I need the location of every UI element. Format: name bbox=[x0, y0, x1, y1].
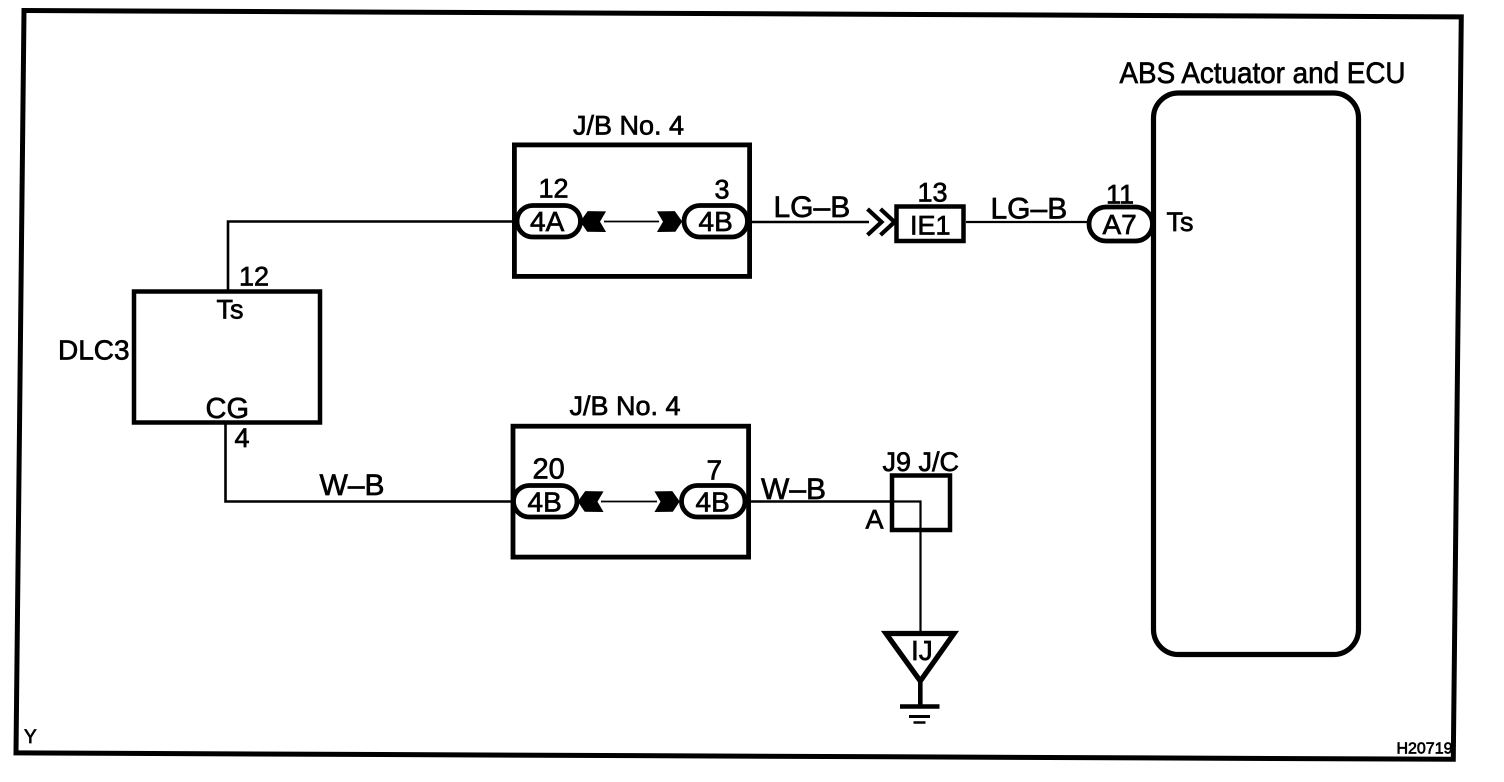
arrow left (into 4A) bbox=[581, 212, 605, 232]
connector oval 4A bbox=[517, 206, 581, 238]
label A (J9 pin) bbox=[866, 505, 884, 535]
svg-text:A: A bbox=[866, 505, 884, 535]
connector oval 4B (top) bbox=[684, 206, 748, 238]
svg-text:IE1: IE1 bbox=[910, 211, 951, 241]
male connector chevrons bbox=[868, 209, 895, 235]
label LG-B (right) bbox=[991, 193, 1068, 226]
svg-text:4A: 4A bbox=[530, 206, 565, 237]
svg-text:3: 3 bbox=[715, 175, 730, 205]
label W-B (right) bbox=[761, 473, 826, 506]
label Ts (DLC3 pin name) bbox=[217, 295, 244, 325]
svg-text:ABS Actuator and ECU: ABS Actuator and ECU bbox=[1120, 57, 1406, 90]
junction block J/B No.4 (bottom) bbox=[513, 426, 749, 557]
ground IJ triangle bbox=[886, 634, 954, 682]
label CG (DLC3 pin name) bbox=[206, 393, 250, 425]
arrow right (into bottom right 4B) bbox=[656, 492, 680, 512]
svg-text:7: 7 bbox=[707, 455, 723, 486]
pin 12 (4A) bbox=[539, 174, 569, 204]
wire internal (bottom J/B) bbox=[601, 501, 657, 503]
pin 11 (A7) bbox=[1106, 180, 1134, 210]
connector oval 4B (bottom left) bbox=[514, 486, 578, 518]
svg-text:J/B No. 4: J/B No. 4 bbox=[570, 391, 681, 421]
pin 20 (4B left) bbox=[533, 454, 565, 486]
svg-text:12: 12 bbox=[239, 262, 269, 292]
svg-text:DLC3: DLC3 bbox=[58, 335, 130, 366]
wire bottom 4B to J9 junction bbox=[747, 500, 892, 503]
svg-text:J/B No. 4: J/B No. 4 bbox=[573, 111, 684, 141]
label J/B No. 4 (bottom) bbox=[570, 391, 681, 421]
arrow right (into 4B) bbox=[658, 212, 682, 232]
connector oval 4B (bottom right) bbox=[682, 486, 746, 518]
label J9 J/C bbox=[883, 447, 960, 477]
ground stem bbox=[918, 680, 923, 705]
label H20719 bbox=[1396, 741, 1452, 758]
junction block J/B No.4 (top) bbox=[514, 145, 749, 277]
wire CG down and right to bottom J/B bbox=[226, 423, 514, 502]
svg-text:20: 20 bbox=[533, 454, 565, 486]
svg-text:Ts: Ts bbox=[217, 295, 244, 325]
svg-text:H20719: H20719 bbox=[1396, 741, 1452, 758]
ground bar 3 bbox=[914, 721, 926, 724]
connector DLC3 box bbox=[134, 292, 320, 423]
connector IE1 bbox=[897, 207, 964, 242]
svg-text:CG: CG bbox=[206, 393, 250, 425]
svg-text:12: 12 bbox=[539, 174, 569, 204]
label W-B (left) bbox=[320, 469, 385, 502]
svg-text:J9 J/C: J9 J/C bbox=[883, 447, 960, 477]
svg-text:Ts: Ts bbox=[1167, 207, 1194, 237]
pin 13 (IE1) bbox=[918, 178, 948, 208]
svg-text:LG–B: LG–B bbox=[991, 193, 1068, 226]
label Y bbox=[24, 727, 37, 748]
junction connector J9 J/C box bbox=[892, 476, 950, 531]
wire into J9 and down to ground bbox=[892, 502, 921, 635]
wire internal (top J/B) bbox=[604, 221, 659, 223]
label ABS Actuator and ECU bbox=[1120, 57, 1406, 90]
label Ts (ECU pin name) bbox=[1167, 207, 1194, 237]
svg-text:4B: 4B bbox=[696, 487, 730, 518]
svg-text:13: 13 bbox=[918, 178, 948, 208]
connector oval A7 bbox=[1089, 207, 1153, 241]
ground bar 2 bbox=[909, 715, 930, 718]
svg-text:A7: A7 bbox=[1103, 209, 1137, 240]
wire 4B to chevron connector bbox=[749, 221, 869, 224]
svg-text:W–B: W–B bbox=[761, 473, 826, 506]
wire IE1 to A7 bbox=[966, 221, 1088, 223]
svg-text:LG–B: LG–B bbox=[774, 191, 851, 224]
pin 7 (4B right) bbox=[707, 455, 723, 486]
pin 12 (DLC3) bbox=[239, 262, 269, 292]
label DLC3 bbox=[58, 335, 130, 366]
ECU box ABS Actuator and ECU bbox=[1154, 93, 1359, 655]
svg-text:IJ: IJ bbox=[911, 635, 933, 666]
label J/B No. 4 (top) bbox=[573, 111, 684, 141]
svg-text:4B: 4B bbox=[699, 206, 733, 237]
svg-text:Y: Y bbox=[24, 727, 37, 748]
svg-text:4: 4 bbox=[235, 423, 250, 453]
pin 3 (4B) bbox=[715, 175, 730, 205]
pin 4 (DLC3) bbox=[235, 423, 250, 453]
wire DLC3 Ts up and right to J/B 4A bbox=[228, 222, 516, 292]
svg-text:W–B: W–B bbox=[320, 469, 385, 502]
svg-text:4B: 4B bbox=[528, 487, 562, 518]
ground bar 1 bbox=[900, 704, 940, 709]
label LG-B (left) bbox=[774, 191, 851, 224]
arrow left (into bottom 4B) bbox=[579, 492, 603, 512]
